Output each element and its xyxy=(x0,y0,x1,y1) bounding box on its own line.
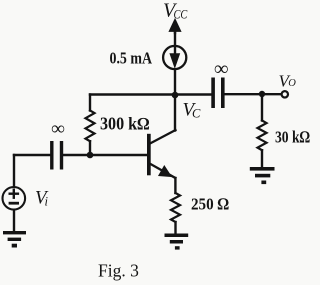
svg-text:Fig. 3: Fig. 3 xyxy=(98,261,139,281)
wire collector to node VC xyxy=(174,95,176,131)
svg-text:300 kΩ: 300 kΩ xyxy=(100,113,150,133)
resistor R2 250 Ohm xyxy=(171,193,180,222)
label VC xyxy=(183,100,202,121)
wire junction down to resistor 30k xyxy=(261,94,263,121)
top wire left (node VC to 300k corner) xyxy=(90,93,175,95)
wire output capacitor to terminal Vo xyxy=(225,93,281,95)
svg-text:0.5 mA: 0.5 mA xyxy=(110,49,153,68)
ground (output) xyxy=(250,167,275,184)
output capacitor C2 plates xyxy=(211,78,224,109)
wire resistor 250 to ground xyxy=(174,222,176,234)
wire emitter to resistor 250 xyxy=(174,178,176,193)
base node junction dot xyxy=(87,152,94,159)
resistor R3 30 kOhm xyxy=(258,121,267,151)
wire input source to capacitor xyxy=(14,154,50,156)
ground (emitter) xyxy=(165,234,189,250)
minus sign in source xyxy=(10,202,18,205)
label Vo xyxy=(279,71,297,90)
arrow inside current source xyxy=(170,54,179,68)
ground (input) xyxy=(3,231,26,248)
svg-text:C: C xyxy=(192,107,201,121)
svg-text:250 Ω: 250 Ω xyxy=(191,195,229,214)
node at 30k junction dot xyxy=(259,91,265,97)
terminal Vo open circle xyxy=(282,91,288,97)
arrow to VCC xyxy=(169,19,181,33)
node VCC label xyxy=(163,0,188,22)
transistor Q1 emitter lead with arrow xyxy=(150,164,176,178)
wire resistor 30k to ground xyxy=(261,150,263,167)
current source I1 0.5 mA xyxy=(163,46,186,69)
svg-text:30 kΩ: 30 kΩ xyxy=(275,128,310,147)
transistor Q1 base bar xyxy=(147,134,151,176)
svg-text:i: i xyxy=(45,195,49,209)
base wire (capacitor to transistor base) xyxy=(63,154,147,156)
wire VCC arrow to current source xyxy=(174,31,176,55)
wire resistor 300k to base node xyxy=(89,141,91,155)
transistor Q1 collector lead xyxy=(150,130,176,144)
plus sign in source xyxy=(10,190,18,198)
node VC junction dot xyxy=(172,92,179,99)
source Vi circle xyxy=(3,187,26,210)
input capacitor C1 plates xyxy=(50,141,63,170)
wire source Vi to ground xyxy=(13,210,15,231)
svg-text:CC: CC xyxy=(174,6,188,21)
svg-text:∞: ∞ xyxy=(51,119,65,140)
wire corner down to resistor 300k xyxy=(89,95,91,111)
wire down to source Vi xyxy=(13,155,15,187)
top wire right (node VC to output capacitor) xyxy=(175,93,212,95)
svg-text:O: O xyxy=(288,78,296,89)
resistor R1 300 kOhm xyxy=(86,111,95,142)
label Vi xyxy=(35,188,49,209)
wire current source to node VC xyxy=(174,70,176,95)
svg-text:∞: ∞ xyxy=(214,58,228,80)
